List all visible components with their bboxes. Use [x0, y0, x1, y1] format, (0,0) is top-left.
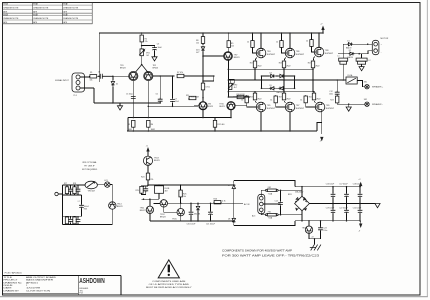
wire VAS jog to feedback	[203, 76, 214, 81]
wire bias lower row	[228, 96, 250, 98]
svg-text:0R22: 0R22	[315, 66, 319, 68]
svg-text:C1: C1	[98, 71, 100, 73]
capacitor C15	[78, 195, 90, 216]
trimmer VR2 bias multiplier	[228, 79, 237, 89]
svg-text:SPEAKER -: SPEAKER -	[372, 103, 383, 106]
mosfet TR4 upper	[256, 32, 276, 58]
resistor R19 source TR7b	[279, 91, 286, 103]
svg-text:MUST BE REPLACED ACCORDINGLY: MUST BE REPLACED ACCORDINGLY	[146, 286, 192, 289]
resistor R6 to lower rail	[147, 120, 154, 131]
svg-text:FS2: FS2	[268, 187, 271, 189]
POWER SUPPLY SECTION	[244, 179, 380, 250]
fuse FS1	[265, 212, 278, 220]
wire pair row link lower	[63, 215, 82, 217]
svg-text:D3: D3	[270, 72, 272, 74]
svg-text:R14 220R: R14 220R	[233, 97, 242, 99]
wire bridge plus up	[301, 187, 303, 197]
connector PL1 signal input	[72, 73, 85, 97]
wire output top line	[343, 43, 372, 45]
relay RL1A contact	[346, 74, 357, 84]
transistor TR15	[172, 203, 184, 221]
capacitor C7 feedback	[170, 75, 180, 107]
svg-text:FOR 300 WATT AMP LEAVE OFF:- T: FOR 300 WATT AMP LEAVE OFF:- TR5/TR6/Z2/…	[222, 254, 320, 258]
jack pre input	[55, 192, 63, 195]
svg-text:100n: 100n	[329, 93, 333, 95]
svg-text:BF423: BF423	[117, 206, 123, 208]
svg-text:BUZ905P: BUZ905P	[296, 108, 305, 110]
svg-text:1k: 1k	[270, 99, 272, 101]
transistor TR5 thermal	[302, 220, 313, 239]
svg-text:1k: 1k	[247, 42, 249, 44]
svg-text:R11: R11	[186, 95, 189, 97]
svg-text:4V7: 4V7	[196, 52, 199, 54]
resistor R26 4.7k	[211, 199, 226, 204]
svg-text:C14: C14	[275, 200, 278, 202]
svg-text:12k: 12k	[196, 42, 199, 44]
svg-text:BA159: BA159	[277, 91, 282, 94]
svg-text:R28: R28	[73, 183, 76, 185]
svg-text:R27: R27	[64, 183, 67, 185]
resistor R12b to rail	[213, 118, 224, 132]
capacitor C16	[326, 184, 336, 205]
capacitor C5 on TR1 collector	[126, 94, 136, 99]
svg-text:25A 400V: 25A 400V	[295, 190, 304, 193]
svg-text:BF423: BF423	[234, 57, 240, 59]
ground L2	[359, 67, 364, 71]
potentiometer VR3	[85, 181, 97, 192]
svg-text:R26: R26	[214, 199, 217, 201]
svg-text:BF423: BF423	[120, 68, 126, 70]
resistor R28 capacitor C14b pair	[73, 183, 81, 195]
resistor R15 source TR4	[250, 57, 257, 80]
svg-text:D2: D2	[349, 50, 351, 52]
svg-text:OF UL APPROVED TYPE AND: OF UL APPROVED TYPE AND	[149, 283, 190, 286]
ground supply	[375, 204, 380, 208]
resistor R5 to lower rail	[128, 120, 135, 131]
svg-text:C6: C6	[156, 93, 158, 95]
svg-text:BUZ905P: BUZ905P	[326, 108, 335, 110]
svg-text:R13 220R: R13 220R	[191, 97, 200, 99]
svg-text:10k: 10k	[183, 196, 186, 198]
svg-text:D8: D8	[228, 219, 230, 221]
wire input ground line	[94, 102, 161, 104]
svg-text:ISSUE: ISSUE	[3, 14, 8, 16]
zener Z1 input clamp	[111, 76, 118, 103]
scan edge shadow bottom	[0, 296, 428, 298]
wire feedback lower	[148, 105, 199, 108]
VR3 OPTIONAL BLOCK	[55, 161, 123, 224]
svg-text:PCB # AP03001: PCB # AP03001	[5, 271, 23, 274]
wire relay to speaker plus	[357, 81, 364, 87]
svg-text:0R22: 0R22	[257, 99, 261, 101]
wire fuse2 to bridge	[278, 211, 302, 215]
node output rail junctions	[228, 79, 230, 81]
link LK1	[97, 180, 112, 187]
wire lower rail	[127, 130, 317, 132]
svg-text:SPEAKER +: SPEAKER +	[372, 86, 384, 89]
svg-text:BF423: BF423	[208, 106, 213, 108]
configuration note text	[222, 248, 320, 257]
svg-text:1k5: 1k5	[231, 46, 234, 48]
svg-text:CHANGE NOTE: CHANGE NOTE	[3, 17, 19, 20]
svg-text:D7: D7	[228, 185, 230, 187]
wire AC bottom	[261, 212, 265, 215]
svg-text:BUZ900P: BUZ900P	[325, 53, 334, 55]
diode D1	[346, 41, 353, 50]
mosfet TR5 lower	[256, 102, 276, 132]
capacitor C14 across mains	[263, 190, 283, 216]
wire top positive rail	[99, 32, 323, 34]
wire mid feedback line	[128, 117, 231, 119]
value labels	[90, 41, 321, 198]
resistor R18 source TR5	[250, 91, 257, 103]
svg-text:ISSUE: ISSUE	[33, 4, 38, 6]
capacitor C12 zobel	[329, 79, 340, 95]
node lattice junctions	[261, 75, 263, 77]
note VR3 optional	[82, 161, 98, 171]
svg-text:R63: R63	[84, 208, 87, 210]
node upper mid junctions	[143, 198, 145, 200]
wire TR10 emitter drop	[230, 110, 232, 118]
transistor TR14	[109, 202, 123, 209]
wire AC top	[261, 190, 265, 196]
svg-text:TITLE: TITLE	[4, 277, 13, 279]
diode D9	[194, 203, 200, 222]
svg-text:SK2: SK2	[364, 99, 367, 101]
svg-text:DRAWN BY: DRAWN BY	[4, 289, 20, 292]
diode D8	[228, 217, 236, 223]
svg-text:R7 47k: R7 47k	[177, 72, 183, 74]
wire protection bottom line	[150, 220, 234, 222]
svg-text:BA159: BA159	[346, 46, 351, 49]
svg-text:C24 100uF: C24 100uF	[353, 208, 361, 210]
svg-text:NOT REQUIRED: NOT REQUIRED	[82, 169, 98, 171]
transistor TR11	[140, 199, 154, 221]
node lower rail junctions	[133, 130, 135, 132]
svg-text:SIGNAL INPUT: SIGNAL INPUT	[55, 79, 69, 82]
svg-text:R9: R9	[231, 43, 233, 45]
svg-text:TR15: TR15	[172, 219, 177, 221]
svg-text:1N4148: 1N4148	[194, 214, 200, 216]
svg-text:VR1: VR1	[146, 53, 150, 55]
resistor R25	[179, 185, 187, 203]
svg-text:BUZ900P: BUZ900P	[296, 54, 305, 56]
capacitor C20	[187, 203, 197, 225]
resistor R8 VAS load	[196, 32, 205, 43]
OUTPUT MOSFET STAGE	[228, 32, 334, 142]
svg-text:1k: 1k	[306, 41, 308, 43]
wire VAS down to driver	[202, 56, 204, 102]
jack speaker minus	[364, 99, 383, 106]
wire bridge ac mid	[309, 203, 375, 205]
supply arrow -V rail	[359, 221, 363, 233]
svg-text:ABM OUTPUT BOARD: ABM OUTPUT BOARD	[26, 276, 57, 279]
relay coil RL1B	[155, 185, 170, 199]
svg-text:0R22: 0R22	[286, 66, 290, 68]
warning triangle	[158, 260, 179, 278]
svg-text:0R22: 0R22	[257, 66, 261, 68]
svg-text:L2: L2	[369, 60, 371, 62]
svg-text:R6: R6	[151, 124, 153, 126]
capacitor C2 input coupling	[98, 71, 113, 79]
wire emitter Y	[136, 65, 148, 72]
svg-text:MOTOR: MOTOR	[381, 38, 389, 40]
resistor R24	[141, 165, 150, 185]
resistor R12 gate TR4	[247, 32, 257, 53]
svg-text:ISSUE: ISSUE	[63, 14, 68, 16]
resistor R29b capacitor C16b pair	[65, 216, 73, 224]
svg-text:PROJECT: PROJECT	[4, 280, 19, 282]
svg-text:C16 100uF: C16 100uF	[326, 184, 334, 186]
node input junction	[112, 76, 114, 78]
transistor TR3 driver	[199, 102, 213, 110]
wire block left	[62, 185, 64, 225]
svg-text:ISSUE: ISSUE	[33, 14, 38, 16]
revision table	[3, 3, 93, 24]
svg-text:BUZ905P: BUZ905P	[267, 108, 276, 110]
svg-text:BF423: BF423	[140, 210, 146, 212]
wire mid line left drop	[127, 118, 129, 132]
svg-text:1k: 1k	[276, 42, 278, 44]
ground C3	[152, 57, 157, 61]
svg-text:0R22: 0R22	[316, 99, 320, 101]
fuse FS2	[265, 187, 278, 195]
svg-text:R23: R23	[330, 100, 333, 102]
svg-text:ISSUE: ISSUE	[63, 4, 68, 6]
svg-text:10k: 10k	[90, 80, 93, 82]
svg-text:R20: R20	[309, 97, 312, 99]
svg-text:C9 1n: C9 1n	[205, 87, 210, 89]
wire TR1 collector down	[132, 81, 134, 118]
svg-text:BASS MAGNIFIER: BASS MAGNIFIER	[26, 279, 54, 282]
resistor R7 feedback	[177, 72, 214, 78]
svg-text:R29: R29	[136, 190, 139, 192]
svg-text:BF423: BF423	[160, 216, 166, 218]
capacitor C3 decoupling	[142, 43, 163, 57]
wire pin1 to R1	[80, 77, 94, 103]
node mid line junctions	[133, 117, 135, 119]
svg-text:C17 100uF: C17 100uF	[339, 184, 347, 186]
wire frame bottom	[234, 221, 295, 226]
diode D6	[275, 87, 294, 94]
scan edge shadow right	[426, 0, 428, 297]
resistor R20 source TR9	[309, 91, 316, 103]
svg-text:Z2: Z2	[312, 236, 314, 238]
svg-text:R16: R16	[279, 63, 282, 65]
resistor R17 source TR8	[308, 56, 315, 80]
mosfet TR9 lower	[315, 102, 335, 134]
capacitor C24	[353, 204, 363, 222]
svg-text:R18: R18	[250, 97, 253, 99]
svg-text:C20 100uF: C20 100uF	[187, 224, 197, 226]
svg-text:CHANGE NOTE: CHANGE NOTE	[33, 7, 49, 10]
supply arrow +V top	[320, 23, 324, 33]
ground speaker return	[346, 103, 351, 111]
wire protection upper mid line	[142, 198, 160, 200]
svg-text:TR5: TR5	[302, 228, 305, 230]
svg-text:R5: R5	[128, 124, 130, 126]
diode D5	[262, 85, 276, 90]
svg-text:R24: R24	[141, 177, 144, 179]
svg-text:D5: D5	[270, 85, 272, 87]
svg-text:PL1: PL1	[74, 95, 77, 97]
node output top junction	[367, 43, 369, 45]
bridge rectifier BR1	[288, 190, 309, 211]
resistor gate TR9	[300, 95, 316, 107]
svg-text:COMPONENTS USED ARE: COMPONENTS USED ARE	[152, 280, 186, 283]
supply arrow +V rail	[358, 179, 362, 187]
svg-text:CHANGE NOTE: CHANGE NOTE	[63, 17, 79, 20]
resistor gate TR7b	[270, 95, 286, 107]
wire protection top line	[148, 184, 234, 186]
diode D4	[275, 74, 294, 81]
svg-text:4.7k: 4.7k	[222, 201, 226, 203]
title block	[3, 275, 122, 295]
node mid line junctions	[180, 203, 182, 205]
wire bridge minus down	[301, 211, 303, 221]
svg-text:BUZ900P: BUZ900P	[267, 54, 276, 56]
svg-text:VR3 4k7: VR3 4k7	[88, 191, 95, 193]
ground input	[117, 103, 122, 110]
transistor TR2	[144, 65, 158, 81]
svg-text:SK1: SK1	[364, 82, 367, 84]
svg-text:FIT LINK IF: FIT LINK IF	[84, 166, 95, 168]
svg-text:BF423: BF423	[219, 106, 224, 108]
svg-text:DATE: DATE	[4, 286, 13, 289]
capacitor C23	[318, 220, 327, 239]
resistor R11 base	[186, 95, 196, 100]
wire speaker minus ground	[337, 103, 364, 105]
wire output lower line	[338, 51, 373, 54]
svg-text:22k: 22k	[150, 179, 153, 181]
RIGHT OUTPUT NETWORK	[320, 23, 388, 111]
capacitor C19	[326, 204, 336, 222]
node ground line junction	[112, 102, 114, 104]
inductor L1 resistor R21 parallel	[338, 44, 348, 81]
svg-text:L7: L7	[78, 201, 80, 203]
wire AC section frame	[233, 181, 235, 226]
capacitor C17	[339, 184, 349, 205]
transistor TR13 current source	[143, 156, 159, 166]
svg-text:FS1: FS1	[268, 212, 271, 214]
inductor L2 resistor R22 parallel	[356, 54, 370, 67]
supply arrow -V lower	[320, 137, 324, 143]
svg-text:RL1A: RL1A	[348, 74, 353, 77]
svg-text:360R: 360R	[128, 129, 133, 131]
wire block top	[63, 184, 86, 186]
svg-text:C19 100uF: C19 100uF	[326, 208, 334, 210]
svg-text:F13: F13	[80, 293, 83, 295]
warning note text	[146, 280, 192, 289]
resistor R1	[89, 72, 98, 78]
svg-text:1k: 1k	[300, 99, 302, 101]
wire TR2 base to feedback	[153, 75, 175, 77]
svg-text:2k2: 2k2	[146, 55, 149, 57]
resistor gate TR5	[241, 95, 257, 107]
wire pair row link upper	[63, 194, 82, 196]
svg-text:AP3001: AP3001	[26, 282, 39, 285]
wire source link upper	[228, 68, 313, 70]
svg-text:Z1: Z1	[116, 83, 118, 85]
resistor R27 capacitor C13 pair	[64, 183, 73, 195]
resistor R9 TR7 collector	[227, 32, 233, 52]
node tail junction	[141, 45, 143, 47]
resistor R29 capacitor C19b pair	[136, 185, 149, 195]
svg-text:C3: C3	[157, 43, 159, 45]
transistor TR7	[224, 52, 240, 61]
wire cap bank top rail	[295, 186, 361, 188]
wire diode lattice verticals	[262, 76, 295, 88]
svg-text:R12 4k9: R12 4k9	[217, 124, 224, 126]
svg-text:L1: L1	[338, 56, 340, 58]
ground slash style	[310, 239, 321, 251]
wire TR10 base right	[235, 106, 247, 107]
diode D2	[348, 50, 355, 59]
svg-text:100n: 100n	[323, 230, 327, 232]
capacitor C6	[156, 75, 163, 104]
svg-text:BA159: BA159	[348, 56, 353, 59]
mosfet TR7b lower	[285, 102, 305, 132]
svg-text:LK1: LK1	[104, 180, 107, 182]
svg-text:C5 100p: C5 100p	[126, 94, 133, 96]
svg-text:ISSUE: ISSUE	[3, 4, 8, 6]
svg-text:VR3 OPTIONAL: VR3 OPTIONAL	[82, 161, 97, 164]
trimmer VR1	[139, 46, 149, 65]
resistor R10 bias	[237, 94, 246, 99]
wire source link lower	[228, 91, 314, 93]
transistor TR12	[154, 199, 178, 218]
wire frame top	[234, 181, 295, 187]
diode D7	[228, 184, 236, 190]
mosfet TR8 upper	[314, 32, 334, 57]
svg-text:AL3: AL3	[252, 215, 255, 218]
svg-text:R17: R17	[308, 63, 311, 65]
capacitor C22	[339, 204, 349, 222]
mosfet TR6 upper	[285, 32, 305, 58]
svg-text:BR1: BR1	[288, 194, 292, 196]
resistor R16 source TR6	[279, 57, 286, 80]
wire fuse1 to bridge	[278, 190, 302, 196]
svg-text:22k: 22k	[145, 41, 148, 43]
svg-text:CLIVE BUTTON: CLIVE BUTTON	[26, 290, 51, 292]
svg-text:CHANGE NOTE: CHANGE NOTE	[33, 17, 49, 20]
connector PL2 AC in	[244, 194, 265, 217]
svg-text:R1: R1	[90, 72, 92, 74]
node VAS junction	[202, 55, 204, 57]
svg-text:1/01/99: 1/01/99	[26, 287, 41, 289]
wire cluster bottom	[309, 238, 321, 240]
wire left vertical feed	[98, 33, 100, 82]
wire TR2 collector down	[147, 81, 149, 118]
svg-text:BA159: BA159	[278, 79, 283, 82]
zener ZD1	[196, 43, 205, 56]
node output lower junction	[358, 53, 360, 55]
node protection junctions	[147, 184, 149, 186]
MIDDLE PROTECTION SECTION	[136, 145, 296, 225]
wire output rail to sources	[284, 80, 313, 92]
svg-text:0R22: 0R22	[286, 99, 290, 101]
wire block right	[111, 185, 113, 202]
resistor R14 gate TR8	[306, 32, 315, 52]
wire TR7 emitter down	[227, 60, 229, 97]
wire block bottom	[63, 224, 113, 226]
svg-text:BF423: BF423	[153, 68, 159, 70]
wire junction to TR1 base	[113, 75, 129, 77]
wire VAS to TR7 base	[203, 55, 224, 57]
svg-text:R15: R15	[250, 63, 253, 65]
capacitor C18	[353, 184, 363, 205]
svg-text:AC IN: AC IN	[244, 203, 250, 206]
